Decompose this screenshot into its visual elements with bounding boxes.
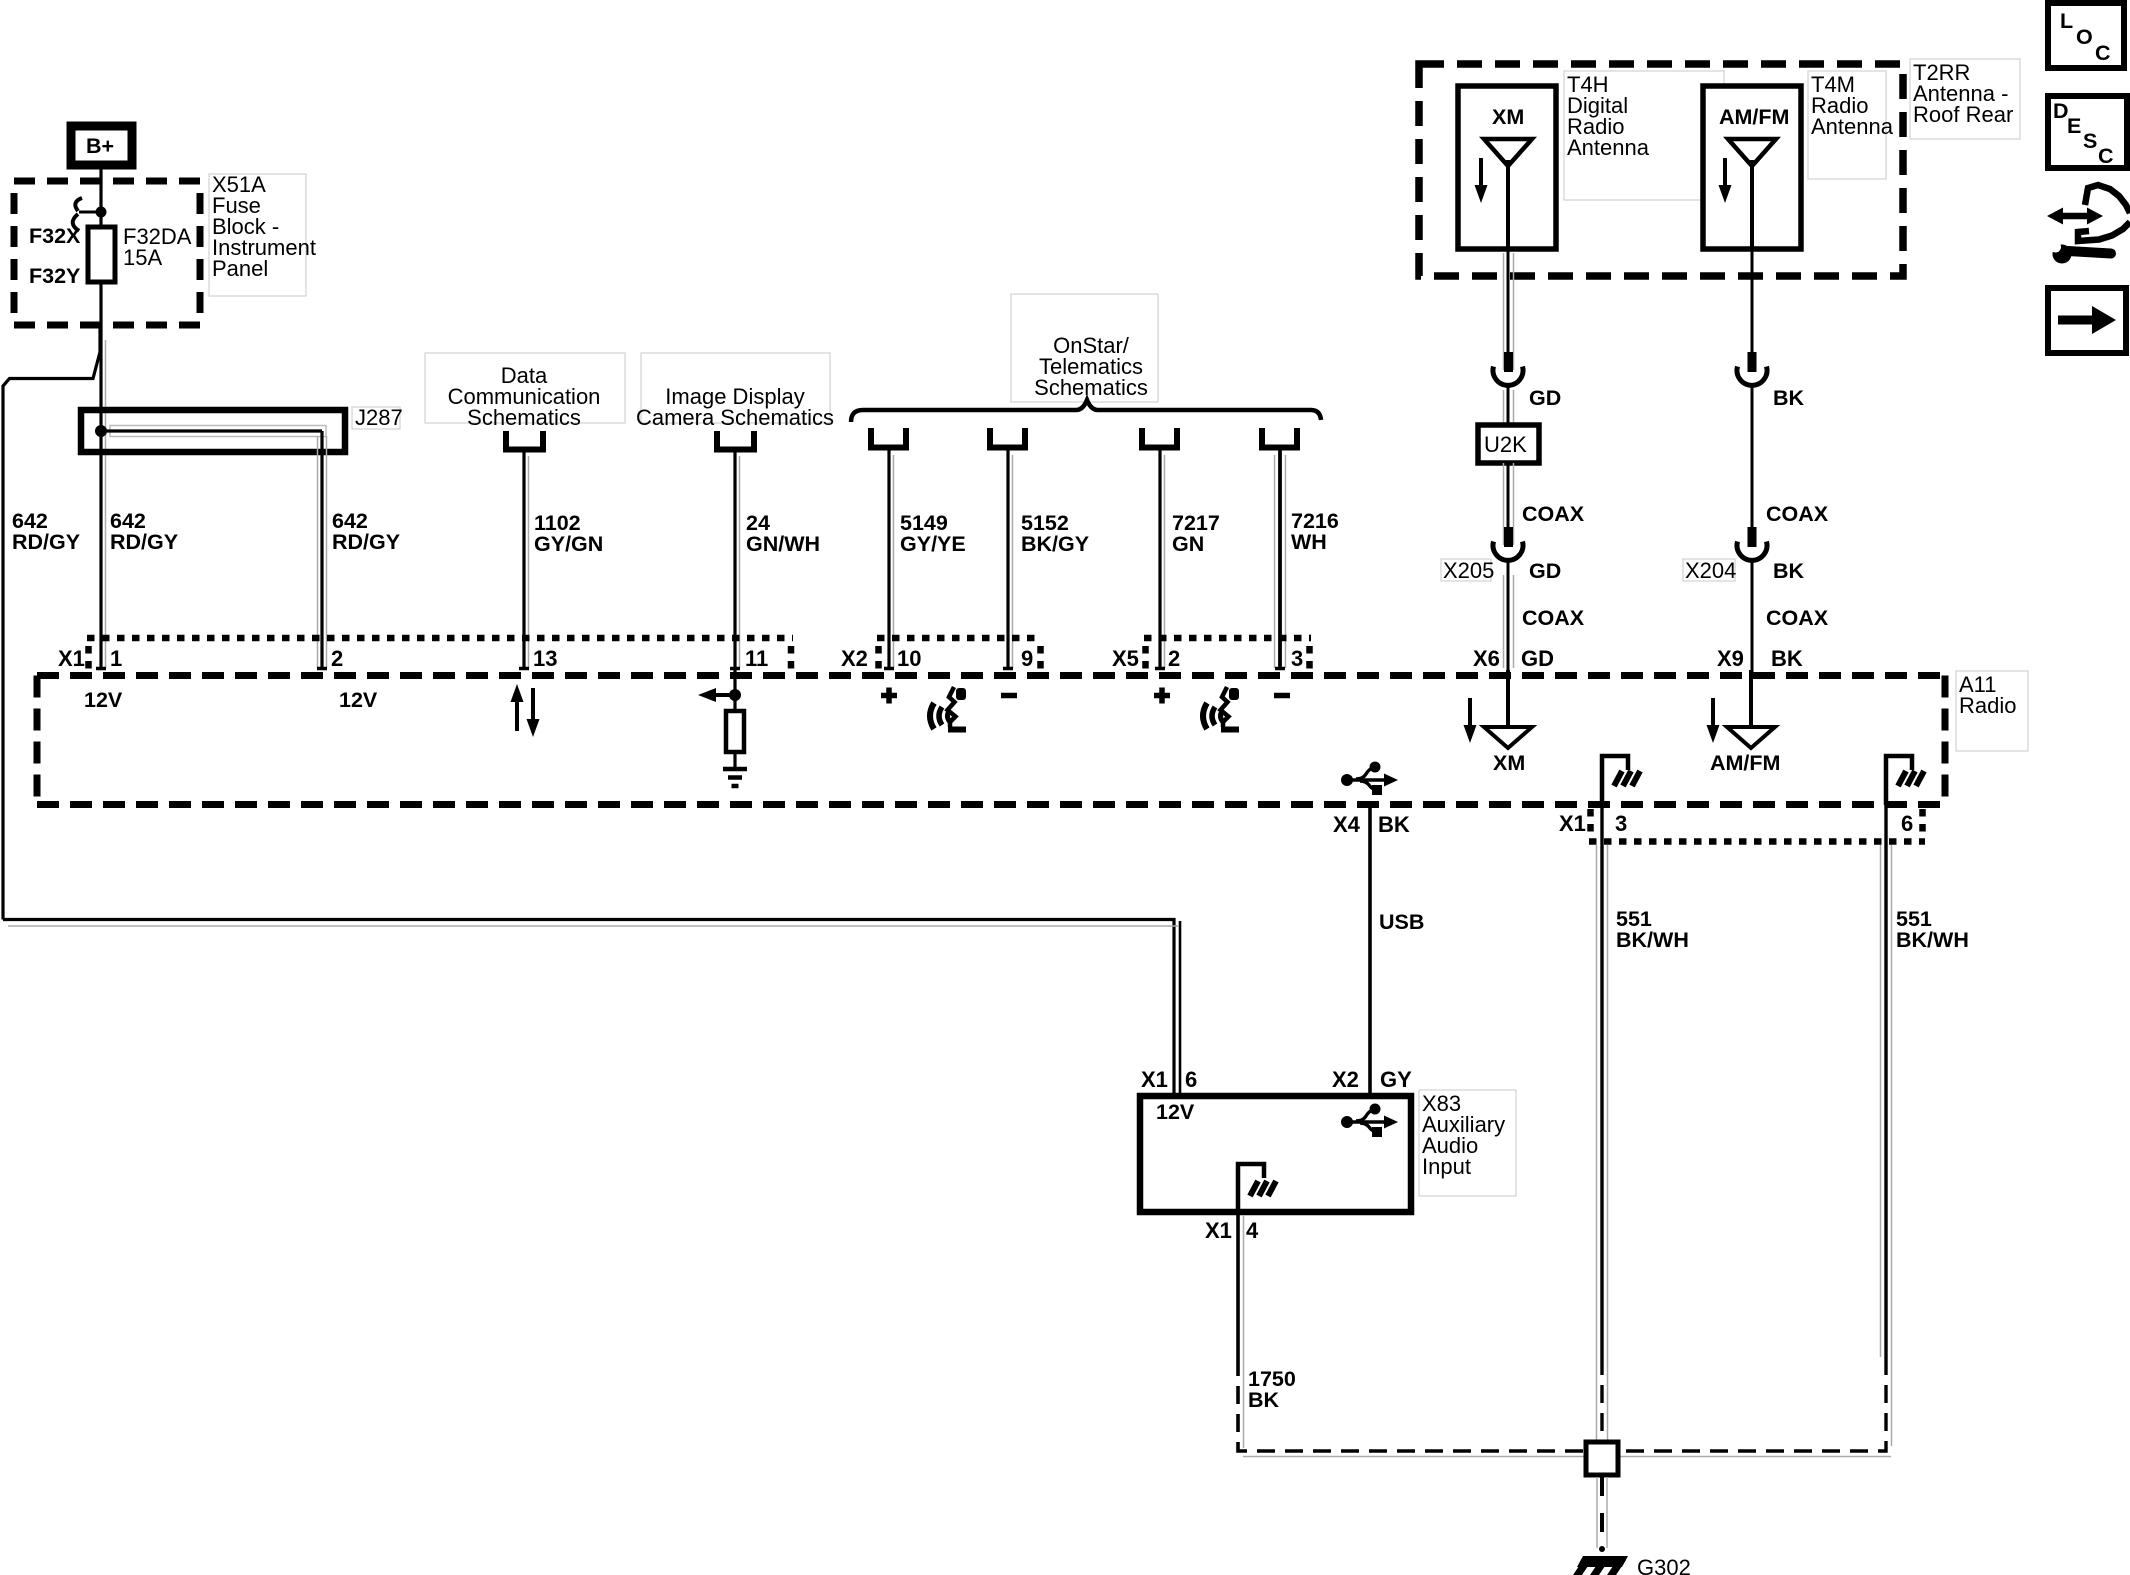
wire splice to G302 bbox=[1597, 1477, 1607, 1552]
svg-text:U2K: U2K bbox=[1484, 432, 1527, 457]
svg-text:2: 2 bbox=[331, 646, 343, 671]
speaker icon (X2) bbox=[930, 687, 966, 730]
USB icon (X83) bbox=[1341, 1104, 1398, 1138]
wire 24 GN/WH bbox=[735, 452, 740, 670]
DESC box icon bbox=[2048, 96, 2127, 168]
pin X1 6 (X83 top) bbox=[1141, 1067, 1197, 1092]
svg-text:F32X: F32X bbox=[29, 224, 81, 248]
svg-text:G302: G302 bbox=[1637, 1555, 1691, 1575]
fuse F32DA 15A bbox=[88, 227, 115, 325]
inline connector (XM upper) bbox=[1493, 352, 1523, 385]
XM antenna symbol (radio) bbox=[1464, 670, 1533, 775]
svg-text:X1: X1 bbox=[1559, 811, 1586, 836]
svg-text:GD: GD bbox=[1521, 646, 1554, 671]
off-page connector (image display) bbox=[714, 431, 757, 450]
label T2RR Antenna - Roof Rear bbox=[1910, 59, 2020, 139]
svg-text:X4: X4 bbox=[1333, 812, 1361, 837]
splice pack J287 bbox=[81, 410, 345, 452]
svg-text:11: 11 bbox=[745, 646, 768, 671]
bidirectional arrows (pin 13) bbox=[511, 684, 540, 737]
connector X1 dotted strip (radio top) bbox=[87, 638, 793, 674]
pin X1 4 (X83 bottom) bbox=[1205, 1218, 1259, 1243]
off-page connector (OnStar 7216) bbox=[1259, 428, 1300, 448]
minus sign (X5 pin 3) bbox=[1274, 693, 1290, 699]
label T4M Radio Antenna bbox=[1808, 71, 1894, 179]
wire 551 BK/WH (pin 6) bbox=[1618, 805, 1892, 1457]
svg-text:Roof Rear: Roof Rear bbox=[1913, 102, 2013, 127]
svg-text:GD: GD bbox=[1529, 386, 1561, 410]
svg-text:X1: X1 bbox=[1205, 1218, 1232, 1243]
svg-text:E: E bbox=[2067, 114, 2081, 138]
svg-text:Panel: Panel bbox=[212, 256, 268, 281]
svg-text:2: 2 bbox=[1168, 646, 1180, 671]
label Image Display Camera Schematics bbox=[636, 353, 834, 430]
XM coax wire antenna to connector bbox=[1504, 249, 1514, 370]
wire B+ to fuse bbox=[96, 169, 107, 227]
svg-text:Antenna: Antenna bbox=[1811, 114, 1894, 139]
LOC box icon bbox=[2048, 3, 2124, 68]
connector X5 dotted strip bbox=[1144, 638, 1311, 674]
label 1102 GY/GN bbox=[534, 511, 603, 556]
svg-text:X1: X1 bbox=[58, 646, 85, 671]
svg-text:Antenna: Antenna bbox=[1567, 135, 1650, 160]
chassis ground (X83) bbox=[1238, 1164, 1276, 1212]
svg-text:BK: BK bbox=[1771, 646, 1803, 671]
svg-text:COAX: COAX bbox=[1766, 502, 1829, 526]
wire X204 to radio X9 bbox=[1751, 561, 1754, 672]
svg-text:X1: X1 bbox=[1141, 1067, 1168, 1092]
label X204 bbox=[1683, 558, 1736, 583]
label 24 GN/WH bbox=[746, 511, 820, 556]
label 5152 BK/GY bbox=[1021, 511, 1089, 556]
XM digital antenna T4H box bbox=[1458, 86, 1556, 249]
svg-text:AM/FM: AM/FM bbox=[1710, 751, 1780, 775]
svg-text:Camera Schematics: Camera Schematics bbox=[636, 405, 834, 430]
svg-text:4: 4 bbox=[1246, 1218, 1259, 1243]
label OnStar/Telematics Schematics bbox=[1011, 294, 1158, 402]
svg-text:BK/WH: BK/WH bbox=[1616, 928, 1689, 952]
svg-text:12V: 12V bbox=[84, 688, 123, 712]
fuse block X51A dashed box bbox=[14, 181, 200, 325]
wire 642 RD/GY long run to X83 bbox=[3, 920, 1180, 1097]
svg-text:C: C bbox=[2098, 144, 2114, 168]
label X51A Fuse Block - Instrument Panel bbox=[209, 172, 316, 296]
label 642 RD/GY (pin 2) bbox=[332, 509, 400, 554]
AM/FM antenna symbol (radio) bbox=[1707, 670, 1781, 775]
svg-text:12V: 12V bbox=[1156, 1100, 1195, 1124]
svg-text:X205: X205 bbox=[1443, 558, 1494, 583]
AM/FM coax wire antenna to connector bbox=[1751, 249, 1754, 355]
svg-text:COAX: COAX bbox=[1522, 606, 1585, 630]
label X83 Auxiliary Audio Input bbox=[1419, 1090, 1516, 1196]
wire X205 to radio X6 bbox=[1504, 561, 1514, 672]
inline connector (AM/FM upper) bbox=[1737, 352, 1767, 385]
label 7216 WH bbox=[1291, 509, 1339, 554]
label 642 RD/GY (left) bbox=[12, 509, 80, 554]
wire 5152 BK/GY bbox=[1008, 450, 1013, 670]
earth ground (pin 11) bbox=[723, 769, 747, 786]
label T4H Digital Radio Antenna bbox=[1564, 71, 1724, 200]
wire 1102 GY/GN bbox=[524, 452, 529, 670]
svg-text:GY/YE: GY/YE bbox=[900, 532, 966, 556]
svg-text:B+: B+ bbox=[86, 134, 114, 158]
connector X2 dotted strip bbox=[877, 638, 1042, 674]
svg-text:COAX: COAX bbox=[1522, 502, 1585, 526]
speaker icon (X5) bbox=[1203, 687, 1239, 730]
svg-text:12V: 12V bbox=[339, 688, 378, 712]
wire connector to U2K bbox=[1504, 386, 1514, 425]
pin X6 GD bbox=[1473, 646, 1554, 671]
svg-text:GN: GN bbox=[1172, 532, 1204, 556]
wire 5149 GY/YE bbox=[889, 450, 894, 670]
svg-text:X204: X204 bbox=[1685, 558, 1736, 583]
connector X1 dotted strip (radio bottom grounds) bbox=[1589, 809, 1925, 842]
svg-text:1: 1 bbox=[110, 646, 122, 671]
svg-text:6: 6 bbox=[1901, 811, 1913, 836]
svg-text:BK: BK bbox=[1773, 386, 1805, 410]
svg-text:S: S bbox=[2083, 129, 2097, 153]
plus sign (X2 pin 10) bbox=[881, 688, 897, 704]
pin X2 GY (X83 top) bbox=[1332, 1067, 1412, 1092]
antenna T2RR dashed box bbox=[1419, 64, 1903, 276]
splice junction box bbox=[1586, 1442, 1618, 1475]
inline connector X204 bbox=[1737, 527, 1767, 560]
label Data Communication Schematics bbox=[425, 353, 625, 430]
wire 551 BK/WH (pin 3) bbox=[1597, 805, 1608, 1446]
svg-text:BK: BK bbox=[1773, 559, 1805, 583]
svg-text:Input: Input bbox=[1422, 1154, 1471, 1179]
minus sign (X2 pin 9) bbox=[1001, 693, 1017, 699]
svg-text:COAX: COAX bbox=[1766, 606, 1829, 630]
svg-text:X5: X5 bbox=[1112, 646, 1139, 671]
off-page connector (OnStar 5152) bbox=[987, 428, 1028, 448]
svg-text:13: 13 bbox=[533, 646, 557, 671]
svg-text:BK: BK bbox=[1248, 1388, 1280, 1412]
svg-text:USB: USB bbox=[1379, 910, 1424, 934]
label 1750 BK bbox=[1248, 1367, 1296, 1412]
chassis ground (radio pin 3) bbox=[1602, 756, 1640, 805]
forward arrow box icon bbox=[2048, 288, 2126, 353]
svg-text:GD: GD bbox=[1529, 559, 1561, 583]
radio A11 dashed box bbox=[37, 676, 1945, 806]
svg-text:GY/GN: GY/GN bbox=[534, 532, 603, 556]
wire 7216 WH bbox=[1275, 450, 1286, 670]
label 7217 GN bbox=[1172, 511, 1220, 556]
wrench routing icon bbox=[2047, 185, 2130, 264]
wire U2K to X205 bbox=[1504, 463, 1514, 545]
label 5149 GY/YE bbox=[900, 511, 966, 556]
svg-text:J287: J287 bbox=[355, 405, 403, 430]
svg-text:XM: XM bbox=[1492, 105, 1524, 129]
wire connector to X204 bbox=[1751, 386, 1754, 529]
output arrow and resistor (pin 11) bbox=[698, 670, 741, 711]
svg-text:O: O bbox=[2076, 25, 2093, 49]
brace over OnStar wires bbox=[851, 400, 1321, 422]
battery feed B+ bbox=[71, 126, 132, 165]
svg-text:Schematics: Schematics bbox=[1034, 375, 1148, 400]
wire 7217 GN bbox=[1160, 450, 1165, 670]
svg-text:L: L bbox=[2060, 9, 2073, 33]
svg-text:Schematics: Schematics bbox=[467, 405, 581, 430]
svg-text:RD/GY: RD/GY bbox=[110, 530, 178, 554]
svg-text:6: 6 bbox=[1185, 1067, 1197, 1092]
chassis ground (radio pin 6) bbox=[1886, 756, 1924, 805]
svg-text:X6: X6 bbox=[1473, 646, 1500, 671]
svg-text:AM/FM: AM/FM bbox=[1719, 105, 1789, 129]
svg-text:GN/WH: GN/WH bbox=[746, 532, 820, 556]
svg-text:3: 3 bbox=[1615, 811, 1627, 836]
wire 1750 BK bbox=[1238, 1212, 1586, 1457]
svg-text:C: C bbox=[2095, 41, 2111, 65]
label 551 BK/WH (pin 3) bbox=[1616, 907, 1689, 952]
off-page connector (OnStar 5149) bbox=[868, 428, 909, 448]
svg-text:BK/GY: BK/GY bbox=[1021, 532, 1089, 556]
svg-text:10: 10 bbox=[897, 646, 921, 671]
label A11 Radio bbox=[1956, 671, 2028, 751]
svg-text:RD/GY: RD/GY bbox=[332, 530, 400, 554]
auxiliary audio input X83 box bbox=[1140, 1096, 1411, 1212]
wire 642 RD/GY to radio pin 1 bbox=[99, 431, 102, 670]
svg-text:WH: WH bbox=[1291, 530, 1327, 554]
svg-text:Radio: Radio bbox=[1959, 693, 2016, 718]
svg-text:9: 9 bbox=[1021, 646, 1033, 671]
AM/FM antenna T4M box bbox=[1703, 86, 1801, 249]
plus sign (X5 pin 2) bbox=[1154, 688, 1170, 704]
wire end ticks at radio connectors bbox=[96, 667, 1285, 671]
USB icon (radio X4) bbox=[1341, 762, 1398, 796]
off-page connector (OnStar 7217) bbox=[1139, 428, 1180, 448]
svg-text:X2: X2 bbox=[841, 646, 868, 671]
resistor (pin 11) bbox=[726, 711, 744, 768]
svg-text:X2: X2 bbox=[1332, 1067, 1359, 1092]
option block U2K bbox=[1478, 425, 1539, 463]
pin X9 BK bbox=[1717, 646, 1803, 671]
ground G302 bbox=[1573, 1556, 1628, 1575]
svg-text:GY: GY bbox=[1380, 1067, 1412, 1092]
wire 642 RD/GY fuse to J287 and left branch bbox=[3, 325, 106, 920]
svg-text:F32Y: F32Y bbox=[29, 264, 80, 288]
pin X4 BK (radio bottom) bbox=[1333, 812, 1410, 837]
svg-text:XM: XM bbox=[1493, 751, 1525, 775]
svg-text:BK: BK bbox=[1378, 812, 1410, 837]
wire 642 RD/GY to radio pin 2 bbox=[318, 431, 327, 670]
label X205 bbox=[1441, 558, 1494, 583]
label J287 bbox=[352, 405, 403, 430]
fuse tap hook symbol bbox=[73, 198, 96, 231]
label 642 RD/GY (pin 1) bbox=[110, 509, 178, 554]
svg-text:3: 3 bbox=[1291, 646, 1303, 671]
wire USB X4 to X83 bbox=[1368, 805, 1372, 1096]
svg-text:BK/WH: BK/WH bbox=[1896, 928, 1969, 952]
svg-text:RD/GY: RD/GY bbox=[12, 530, 80, 554]
label 551 BK/WH (pin 6) bbox=[1896, 907, 1969, 952]
off-page connector (data communication) bbox=[503, 431, 546, 450]
svg-text:15A: 15A bbox=[123, 245, 162, 270]
svg-text:X9: X9 bbox=[1717, 646, 1744, 671]
inline connector X205 bbox=[1493, 527, 1523, 560]
